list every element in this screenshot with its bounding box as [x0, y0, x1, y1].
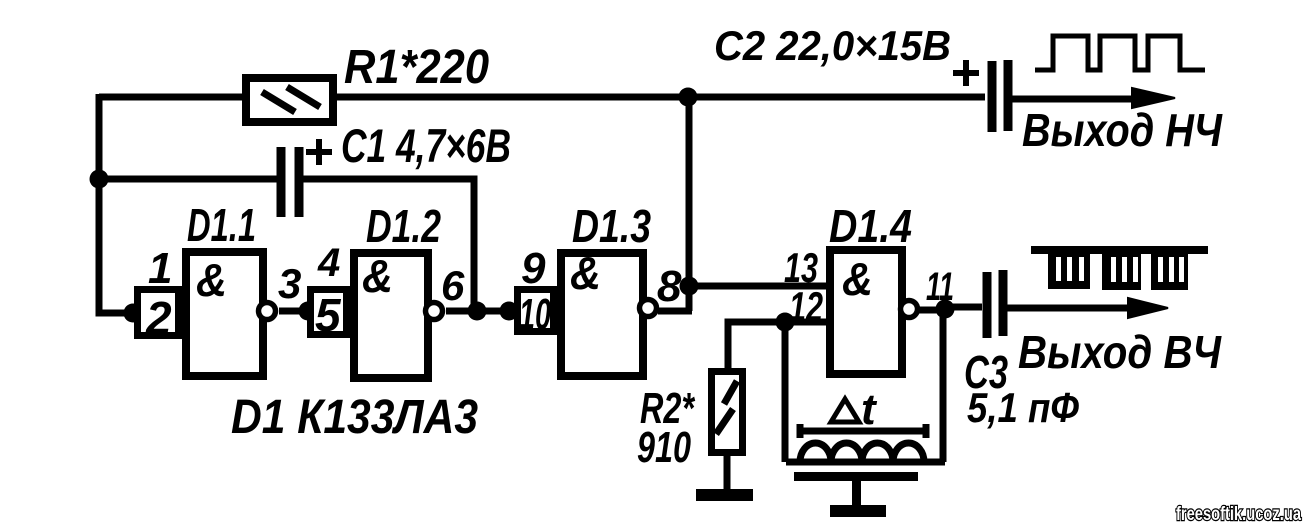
gate D1.3 body [561, 253, 643, 376]
resistor R1 slash marks [262, 87, 320, 112]
svg-text:&: & [362, 250, 393, 302]
node junction dot D1.3 input [500, 302, 519, 321]
waveform HF burst group 2 [1102, 252, 1141, 290]
svg-text:12: 12 [789, 283, 823, 330]
gate D1.4 output bubble [901, 301, 918, 318]
gate D1.4 body [830, 250, 902, 374]
wire node down to inductor right corner [940, 308, 947, 462]
node junction dot on pin 12 wire [776, 313, 795, 332]
node junction dot at D1.4 output [936, 300, 955, 319]
svg-text:5,1 пФ: 5,1 пФ [967, 384, 1079, 431]
svg-text:&: & [842, 253, 873, 305]
resistor R2 slash marks [716, 381, 737, 434]
gate D1.3 output bubble [640, 300, 657, 317]
wire and arrow output NCh [1012, 96, 1140, 103]
label delta t [831, 399, 859, 422]
capacitor C1 polarity plus [306, 139, 332, 165]
svg-text:D1 К133ЛА3: D1 К133ЛА3 [231, 391, 478, 444]
gate D1.1 body [186, 252, 263, 376]
svg-text:C1 4,7×6В: C1 4,7×6В [341, 119, 511, 172]
svg-text:Выход НЧ: Выход НЧ [1022, 104, 1223, 156]
capacitor C2 polarity plus [953, 60, 979, 86]
wire vertical from top rail down to pin 8 node [686, 97, 693, 311]
node junction dot pin 8 [680, 277, 699, 296]
svg-text:5: 5 [315, 289, 342, 341]
node junction dot at top rail / vertical to pin 8 [679, 88, 698, 107]
svg-text:Выход ВЧ: Выход ВЧ [1018, 326, 1222, 378]
gate D1.1 output bubble [259, 303, 276, 320]
wire D1.2 output to D1.3 input [446, 308, 517, 315]
wire pin 8 node to pin 13 of D1.4 [689, 283, 826, 290]
node junction dot at left rail / C1 branch [90, 170, 109, 189]
resistor R1 body [246, 78, 333, 122]
svg-text:8: 8 [657, 262, 682, 311]
node junction dot C1 feedback tap [468, 302, 487, 321]
svg-text:1: 1 [148, 244, 172, 293]
svg-text:t: t [861, 385, 878, 434]
svg-text:D1.1: D1.1 [187, 199, 256, 251]
wire left vertical rail [99, 94, 137, 313]
waveform HF burst group 3 [1151, 252, 1188, 290]
svg-text:2: 2 [145, 292, 172, 344]
resistor R2 body [712, 372, 743, 453]
inductor adjustable core bar [798, 424, 928, 438]
waveform HF bursts baseline [1031, 246, 1208, 254]
wire node on pin12 wire down to inductor left corner [782, 322, 789, 462]
wire D1.4 output to node [918, 307, 945, 314]
svg-text:freesoftik.ucoz.ua: freesoftik.ucoz.ua [1176, 504, 1301, 524]
svg-text:11: 11 [926, 265, 954, 309]
node junction dot D1.1 input [124, 304, 143, 323]
ground under inductor bar 1 [794, 472, 918, 481]
svg-text:910: 910 [637, 423, 691, 472]
wire C1 right to junction between D1.2 and D1.3 [301, 179, 474, 308]
wire inductor bottom baseline [786, 459, 945, 466]
gate D1.3 input box pin 10 [518, 290, 554, 332]
wire R2 bottom to ground [724, 452, 731, 491]
svg-text:4: 4 [317, 241, 340, 285]
svg-text:R1*220: R1*220 [344, 41, 489, 94]
ground under inductor bar 2 [830, 505, 886, 517]
capacitor C3 plates [987, 270, 1003, 338]
node junction dot D1.2 input [299, 302, 318, 321]
wire D1.3 output bubble to vertical node [658, 308, 692, 315]
ground stem [852, 481, 861, 508]
capacitor C2 plates [992, 60, 1008, 132]
svg-text:D1.2: D1.2 [366, 200, 441, 252]
svg-text:C2 22,0×15В: C2 22,0×15В [714, 22, 951, 69]
waveform square wave [1035, 36, 1205, 70]
svg-text:D1.3: D1.3 [572, 200, 651, 252]
wire C1 branch left [99, 176, 277, 183]
wire node to C3 left plate [945, 304, 982, 311]
gate D1.2 input box pin 5 [311, 290, 347, 335]
wire pin 12 of D1.4 left and down to R2 [728, 322, 826, 368]
wire and arrow output VCh [1007, 305, 1135, 312]
svg-text:3: 3 [278, 260, 301, 307]
svg-text:6: 6 [441, 262, 465, 309]
svg-text:9: 9 [521, 244, 546, 293]
gate D1.1 input box pin 2 [138, 290, 179, 336]
svg-text:D1.4: D1.4 [829, 200, 912, 252]
wire top horizontal from left vertical to C2 left plate [99, 94, 985, 101]
svg-text:10: 10 [519, 290, 551, 339]
svg-text:&: & [196, 254, 227, 306]
svg-text:&: & [570, 247, 601, 299]
gate D1.2 body [354, 253, 428, 378]
inductor L coil humps [800, 443, 924, 462]
capacitor C1 plates [281, 147, 299, 217]
ground under R2 [696, 489, 753, 501]
wire D1.1 output to D1.2 input [279, 308, 310, 315]
waveform HF burst group 1 [1048, 252, 1090, 289]
gate D1.2 output bubble [426, 303, 443, 320]
